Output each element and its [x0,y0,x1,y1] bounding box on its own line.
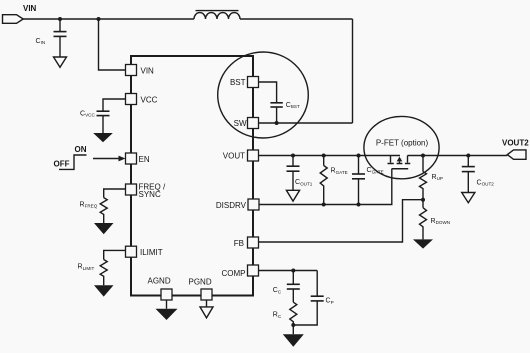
node: C_GATE top [357,154,361,158]
signal ON/OFF step [59,155,87,169]
pin ILIMIT [126,246,163,257]
node: VIN pin junction [97,17,101,21]
svg-text:PGND: PGND [189,277,212,286]
svg-text:COUT2: COUT2 [477,179,495,186]
svg-text:AGND: AGND [148,276,171,285]
svg-text:ILIMIT: ILIMIT [140,248,163,257]
ground (open) for C_IN [54,57,67,67]
pin VOUT [223,150,259,161]
wire: FB to divider [259,200,422,242]
svg-text:CC: CC [273,287,282,294]
inductor L [194,11,240,19]
node: C_GATE bottom [357,203,361,207]
svg-text:DISDRV: DISDRV [216,201,247,210]
node: feedback divider [421,198,425,202]
IC body U1 [131,56,253,296]
node: R_GATE top [322,154,326,158]
node: R_GATE bottom [322,203,326,207]
ground (filled) for AGND [156,300,178,320]
ground (filled) for C_VCC [93,133,113,142]
svg-text:P-FET (option): P-FET (option) [376,139,429,148]
ground (open) for C_OUT2 [462,193,475,203]
pin FREQ/SYNC [126,183,166,200]
svg-text:RC: RC [273,311,282,318]
capacitor C_BST [259,82,283,123]
pin COMP [222,265,259,278]
svg-text:CBST: CBST [286,102,300,109]
resistor Rc [290,302,297,325]
node: C_OUT1 [291,154,295,158]
wire: VOUT rail left of FET [259,155,401,157]
svg-text:RUP: RUP [432,174,443,181]
capacitor Cc [287,271,300,303]
pin EN [126,153,150,164]
svg-text:RGATE: RGATE [331,168,348,175]
capacitor C_IN [54,19,67,57]
svg-text:COUT1: COUT1 [295,179,313,186]
wire: COMP row [259,270,318,272]
resistor R_FREQ [100,189,125,223]
capacitor C_OUT1 [287,156,300,191]
pin DISDRV [216,199,259,210]
svg-text:VIN: VIN [23,4,37,13]
svg-text:RLIMIT: RLIMIT [78,264,95,271]
node: C_BST to SW [275,121,279,125]
node: C_OUT2 [466,154,470,158]
svg-text:CVCC: CVCC [80,110,95,117]
ground (filled) for R_DOWN [413,239,433,248]
resistor R_DOWN [420,200,427,240]
pin VIN [126,65,155,76]
ground (filled) for R_FREQ [94,223,114,234]
pin BST [230,77,259,88]
ground (open) for PGND [200,300,213,318]
wire: rail inductor to corner [240,18,353,20]
pin VCC [126,94,158,105]
pin AGND [148,276,173,300]
wire: SW row [259,122,353,124]
capacitor C_OUT2 [462,156,475,193]
svg-text:VCC: VCC [141,96,158,105]
wire: DISDRV row [259,204,359,206]
svg-text:VOUT2: VOUT2 [502,138,529,147]
resistor R_UP [420,156,427,200]
ground (filled) for comp network [283,325,304,347]
circle around BST/SW [218,52,309,138]
pin FB [234,237,259,248]
svg-text:COMP: COMP [222,269,246,278]
node: C_IN junction [58,17,62,21]
wire: down to VIN pin [99,19,126,70]
pin SW [234,118,259,129]
resistor R_GATE [320,156,327,205]
ground (filled) for R_LIMIT [94,285,114,296]
svg-text:EN: EN [139,155,150,164]
wire: VOUT rail right of FET [408,155,508,157]
terminal VIN [3,15,24,24]
wire: VIN rail left [23,18,194,20]
svg-text:SW: SW [234,119,247,128]
wire: vertical drop to SW row [352,19,354,123]
svg-text:SYNC: SYNC [139,190,161,199]
transistor P-FET [388,156,411,169]
capacitor C_VCC [97,99,126,133]
svg-text:RDOWN: RDOWN [431,218,451,225]
svg-text:CIN: CIN [36,38,46,45]
circle around P-FET [364,116,439,178]
svg-text:RFREQ: RFREQ [80,201,98,208]
svg-text:ON: ON [75,145,87,154]
svg-text:OFF: OFF [54,160,70,169]
node: R_UP top [421,154,425,158]
svg-text:VIN: VIN [141,67,155,76]
node: Cc top [291,269,295,273]
svg-text:FB: FB [234,239,244,248]
svg-text:VOUT: VOUT [223,152,245,161]
terminal VOUT2 [507,150,526,159]
wire: gate to DISDRV row [359,169,392,205]
capacitor Cp [293,271,323,326]
svg-text:CP: CP [326,298,334,305]
resistor R_LIMIT [100,250,125,285]
ground (open) for C_OUT1 [286,190,299,201]
svg-text:BST: BST [230,78,246,87]
arrow into EN [93,156,126,162]
node: comp network bottom [291,323,295,327]
capacitor C_GATE [352,156,365,205]
pin PGND [189,277,213,300]
